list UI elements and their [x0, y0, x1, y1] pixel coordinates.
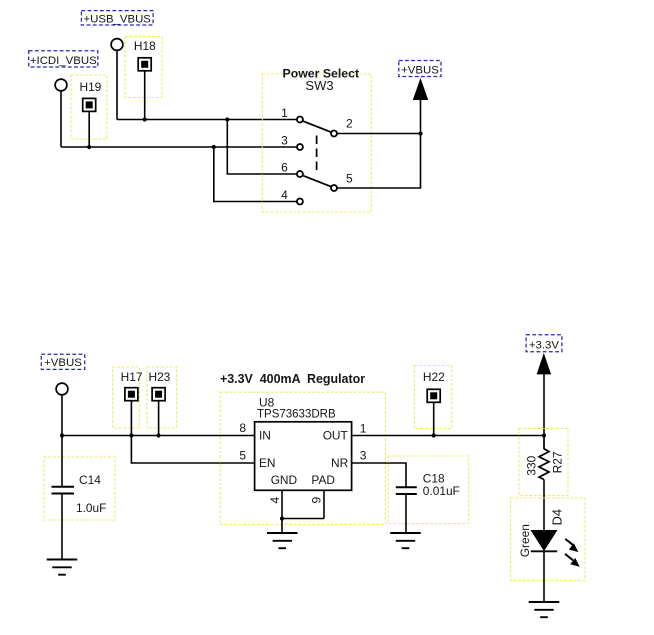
power flag +3.3V — [526, 335, 562, 352]
wire C18 bottom — [405, 494, 407, 533]
junction H19 on ICDI_VBUS wire — [87, 145, 91, 149]
U8 pin number 4 (rotated) — [268, 496, 282, 503]
wire H18 down — [144, 71, 146, 119]
svg-text:D4: D4 — [549, 509, 564, 525]
svg-text:+3.3V 400mA Regulator: +3.3V 400mA Regulator — [220, 372, 365, 386]
wire down to ground U8 — [281, 519, 283, 533]
wire VBUS arrow stem — [420, 100, 422, 134]
wire branch down to pin 6 row — [227, 120, 296, 175]
power flag +ICDI_VBUS — [29, 51, 98, 67]
wire IN line — [62, 435, 255, 437]
switch SW3 yellow box — [262, 74, 371, 212]
wire C14 top — [61, 436, 63, 487]
capacitor C14 refdes — [79, 473, 101, 487]
LED D4 light arrow 2 — [565, 554, 580, 567]
svg-text:+ICDI_VBUS: +ICDI_VBUS — [30, 55, 97, 67]
U8 pin label NR — [331, 456, 349, 470]
power flag +USB_VBUS — [81, 11, 153, 26]
header H17 label — [121, 370, 143, 384]
svg-text:1: 1 — [360, 421, 367, 435]
U8 part number TPS73633DRB — [257, 409, 336, 421]
svg-text:GND: GND — [271, 473, 298, 487]
U8 pin number 1 — [360, 421, 367, 435]
switch SW3 refdes — [305, 78, 333, 93]
SW3 pin 5 number — [346, 172, 353, 186]
svg-text:NR: NR — [331, 456, 349, 470]
net circle +VBUS — [56, 383, 68, 395]
SW3 pin 3 circle — [297, 144, 303, 150]
svg-text:PAD: PAD — [311, 473, 335, 487]
SW3 pin 3 number — [281, 134, 288, 148]
net circle +USB_VBUS — [111, 39, 123, 51]
SW3 blade 6-5 — [303, 175, 332, 186]
header H17 pin symbol — [125, 388, 138, 401]
SW3 pin 6 number — [281, 161, 288, 175]
svg-text:C14: C14 — [79, 473, 101, 487]
U8 pin number 3 — [360, 449, 367, 463]
svg-text:0.01uF: 0.01uF — [423, 484, 460, 498]
net circle +ICDI_VBUS — [55, 79, 67, 91]
svg-text:R27: R27 — [551, 451, 565, 473]
U8 pin 9 wire — [323, 490, 325, 518]
ground U8 — [267, 533, 298, 548]
junction branch to pin 6 — [225, 117, 229, 121]
wire NR to C18 — [352, 463, 406, 487]
header H19 pin symbol — [83, 98, 96, 111]
wire +ICDI_VBUS down — [60, 92, 62, 147]
regulator yellow box — [220, 392, 385, 524]
SW3 pin 4 number — [281, 188, 288, 202]
U8 pin 4 wire — [281, 490, 283, 518]
LED D4 triangle — [531, 530, 558, 551]
svg-text:1.0uF: 1.0uF — [76, 501, 106, 515]
header H19 yellow box — [71, 75, 107, 139]
wire C14 bottom — [61, 494, 63, 560]
svg-text:+VBUS: +VBUS — [44, 357, 82, 369]
header H17 yellow box — [113, 367, 140, 428]
switch SW3 title Power Select — [283, 66, 360, 80]
U8 pin number 5 — [239, 449, 246, 463]
svg-text:4: 4 — [268, 496, 282, 503]
junction pin4 node — [280, 516, 284, 520]
wire H17 down through IN line to EN row — [131, 401, 255, 463]
svg-text:H22: H22 — [423, 370, 445, 384]
capacitor C14 value 1.0uF — [76, 501, 106, 515]
LED D4 light arrow 1 — [565, 539, 578, 552]
svg-text:TPS73633DRB: TPS73633DRB — [257, 409, 336, 421]
svg-text:4: 4 — [281, 188, 288, 202]
svg-text:IN: IN — [259, 429, 271, 443]
wire +VBUS down — [61, 396, 63, 436]
header H23 yellow box — [147, 367, 177, 428]
SW3 pin 1 number — [281, 106, 288, 120]
SW3 mechanical link dashed — [316, 136, 318, 171]
U8 pin label IN — [259, 429, 271, 443]
svg-text:H17: H17 — [121, 370, 143, 384]
regulator title — [220, 372, 365, 386]
U8 pin number 8 — [239, 421, 246, 435]
wire branch down to pin 4 row — [214, 147, 297, 202]
junction H17 on IN line — [129, 433, 133, 437]
SW3 pin 1 circle — [297, 117, 303, 123]
svg-text:+USB_VBUS: +USB_VBUS — [83, 14, 151, 26]
svg-text:EN: EN — [259, 456, 276, 470]
svg-text:3: 3 — [281, 134, 288, 148]
resistor R27 refdes (rotated) — [551, 451, 565, 473]
SW3 pin 6 circle — [297, 171, 303, 177]
wire SW3 pin 5 up to VBUS node — [337, 134, 420, 189]
wire joining pin4 and pin9 — [282, 518, 324, 520]
U8 pin label PAD — [311, 473, 335, 487]
header H17 ... H18 yellow box — [125, 37, 162, 98]
header H23 label — [148, 370, 170, 384]
SW3 pin 2 number — [346, 117, 353, 131]
junction H22 on OUT line — [432, 433, 436, 437]
SW3 pin 4 circle — [297, 199, 303, 205]
U8 pin label GND — [271, 473, 298, 487]
junction H23 on IN line — [157, 433, 161, 437]
capacitor C14 plates — [52, 487, 75, 494]
wire H19 down — [88, 112, 90, 147]
power arrow +VBUS — [413, 78, 428, 100]
svg-text:H18: H18 — [134, 39, 156, 53]
wire D4 to ground — [543, 551, 545, 601]
ground C14 — [47, 560, 78, 575]
wire SW3 pin 2 to VBUS node — [337, 133, 420, 135]
power flag +VBUS (top) — [399, 61, 441, 77]
svg-text:H19: H19 — [79, 80, 101, 94]
svg-text:3: 3 — [360, 449, 367, 463]
SW3 pin 5 circle — [331, 185, 337, 191]
U8 pin number 9 (rotated) — [309, 496, 323, 503]
junction VBUS node — [418, 131, 422, 135]
wire USB_VBUS to SW3 pin 1 — [117, 119, 296, 121]
svg-text:+VBUS: +VBUS — [401, 65, 439, 77]
wire +3.3V down to OUT node — [543, 374, 545, 436]
header H22 yellow box — [414, 366, 451, 429]
svg-text:5: 5 — [239, 449, 246, 463]
capacitor C18 refdes — [423, 471, 445, 485]
resistor R27 value 330 (rotated) — [525, 455, 539, 475]
svg-text:H23: H23 — [148, 370, 170, 384]
wire +USB_VBUS down — [116, 51, 118, 119]
LED D4 refdes (rotated) — [549, 509, 564, 525]
junction branch to pin 4 — [212, 145, 216, 149]
wire H23 down — [158, 401, 160, 435]
header H18 label — [134, 39, 156, 53]
svg-text:330: 330 — [525, 455, 539, 475]
svg-text:8: 8 — [239, 421, 246, 435]
svg-text:Green: Green — [518, 524, 532, 557]
power arrow +3.3V — [537, 353, 552, 374]
svg-text:1: 1 — [281, 106, 288, 120]
svg-text:2: 2 — [346, 117, 353, 131]
resistor R27 zigzag — [539, 449, 549, 480]
wire into R27 — [543, 436, 545, 450]
wire R27 to D4 — [543, 480, 545, 531]
LED D4 yellow box — [511, 498, 585, 581]
SW3 pin 2 circle — [331, 131, 337, 137]
U8 body rectangle — [255, 422, 352, 491]
svg-text:OUT: OUT — [323, 429, 348, 443]
LED D4 color Green (rotated) — [518, 524, 532, 557]
op-amp U8 refdes — [259, 396, 275, 410]
capacitor C14 yellow box — [44, 457, 115, 520]
U8 pin label OUT — [323, 429, 348, 443]
junction +VBUS / C14 / IN line — [60, 433, 64, 437]
U8 pin label EN — [259, 456, 276, 470]
ground D4 — [529, 602, 560, 617]
header H19 label — [79, 80, 101, 94]
wire OUT line — [352, 435, 544, 437]
wire H22 down — [433, 403, 435, 436]
header H18 pin symbol — [138, 58, 151, 71]
header H23 pin symbol — [152, 388, 165, 401]
junction OUT/R27 node — [542, 433, 546, 437]
SW3 blade 1-2 — [303, 121, 332, 132]
power flag +VBUS (regulator input) — [41, 354, 84, 369]
resistor R27 yellow box — [519, 429, 568, 496]
svg-text:6: 6 — [281, 161, 288, 175]
header H22 label — [423, 370, 445, 384]
junction H18 on USB_VBUS wire — [143, 117, 147, 121]
svg-text:5: 5 — [346, 172, 353, 186]
svg-text:+3.3V: +3.3V — [529, 340, 559, 352]
LED D4 cathode bar — [531, 550, 557, 552]
header H22 pin symbol — [427, 389, 440, 402]
capacitor C18 plates — [396, 487, 417, 494]
svg-text:9: 9 — [309, 496, 323, 503]
capacitor C18 yellow box — [388, 456, 469, 524]
svg-text:U8: U8 — [259, 396, 275, 410]
wire ICDI_VBUS to SW3 pin 3 — [61, 146, 296, 148]
svg-text:SW3: SW3 — [305, 78, 333, 93]
capacitor C18 value 0.01uF — [423, 484, 460, 498]
ground C18 — [390, 533, 421, 548]
